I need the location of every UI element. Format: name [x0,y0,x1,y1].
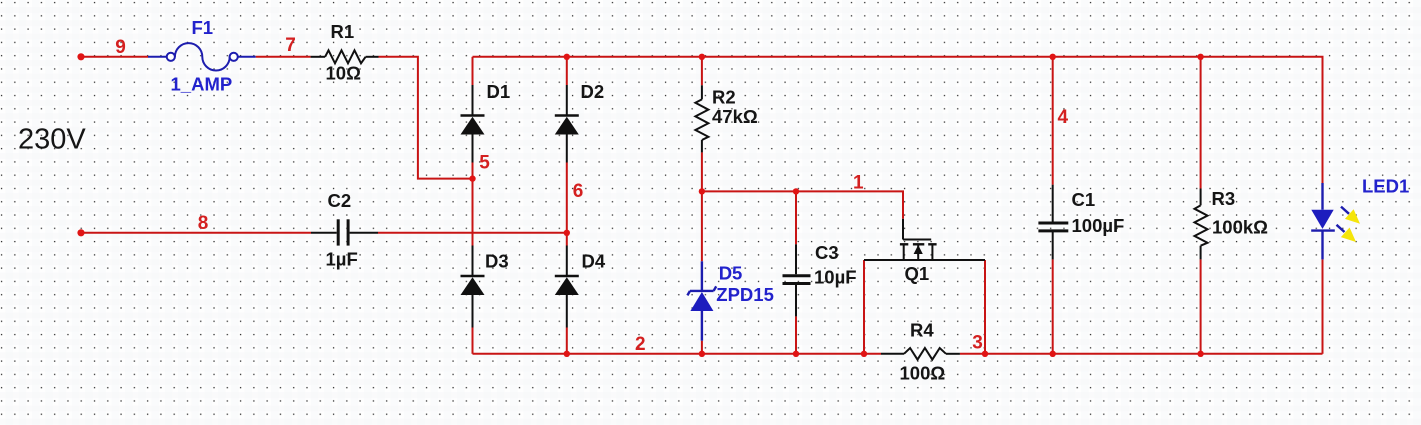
svg-text:10Ω: 10Ω [326,63,362,84]
svg-text:ZPD15: ZPD15 [716,284,774,305]
svg-text:1_AMP: 1_AMP [171,74,233,95]
svg-text:8: 8 [198,213,209,234]
svg-text:5: 5 [479,153,490,174]
svg-text:D2: D2 [581,81,605,102]
svg-text:R4: R4 [910,320,934,341]
svg-text:1: 1 [853,173,864,194]
svg-text:C1: C1 [1072,189,1096,210]
svg-text:C3: C3 [815,242,839,263]
svg-text:R1: R1 [331,21,355,42]
svg-text:100µF: 100µF [1072,215,1125,236]
svg-text:Q1: Q1 [905,263,930,284]
svg-text:4: 4 [1058,107,1069,128]
svg-text:7: 7 [285,35,296,56]
svg-text:C2: C2 [328,190,352,211]
svg-text:6: 6 [573,181,584,202]
svg-text:D1: D1 [487,81,511,102]
svg-text:230V: 230V [18,124,86,156]
svg-text:D5: D5 [719,263,743,284]
svg-text:R2: R2 [712,87,736,108]
svg-text:1µF: 1µF [326,249,358,270]
svg-text:100kΩ: 100kΩ [1212,217,1268,238]
svg-text:10µF: 10µF [814,267,857,288]
svg-text:F1: F1 [192,17,214,38]
svg-text:LED1: LED1 [1362,176,1409,197]
svg-text:100Ω: 100Ω [900,363,946,384]
svg-text:D3: D3 [485,251,509,272]
svg-text:3: 3 [972,333,983,354]
svg-text:47kΩ: 47kΩ [712,106,758,127]
svg-text:2: 2 [635,334,646,355]
svg-text:9: 9 [115,37,126,58]
svg-text:R3: R3 [1212,188,1236,209]
svg-text:D4: D4 [582,251,606,272]
